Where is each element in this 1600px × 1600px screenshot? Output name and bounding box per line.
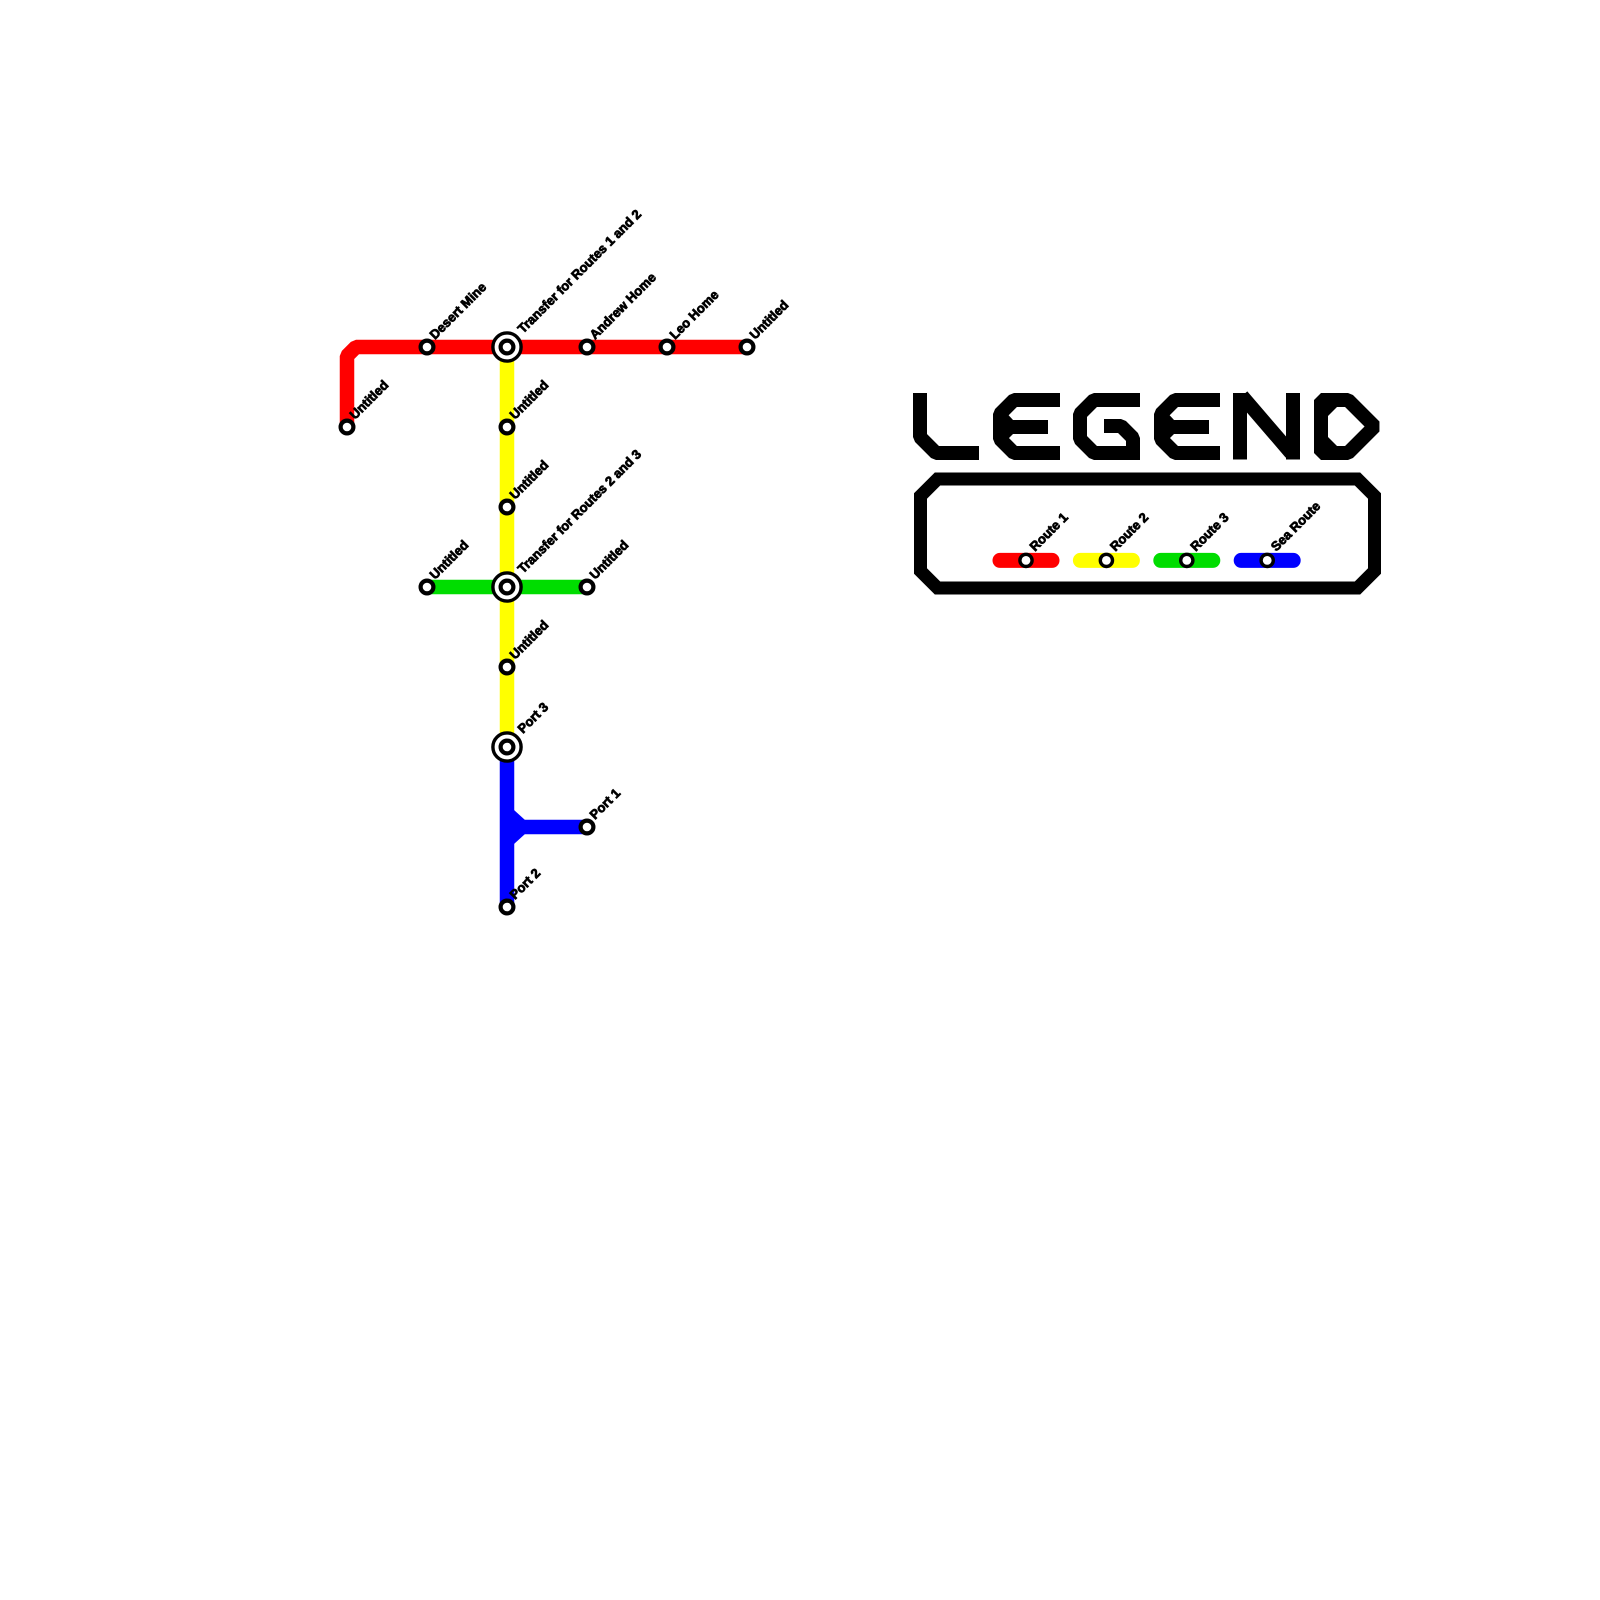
- station Untitled (green east terminus) marker: [581, 581, 594, 594]
- station Port 1 marker: [581, 821, 594, 834]
- route 1 red line: [347, 347, 747, 427]
- station Untitled (yellow 1) marker: [501, 421, 514, 434]
- station Untitled (yellow 2) marker: [501, 501, 514, 514]
- letter G: [1080, 400, 1140, 453]
- legend sample sea route blue line: [1241, 553, 1293, 568]
- station Andrew Home marker: [581, 341, 594, 354]
- letter E (second): [1161, 400, 1220, 453]
- legend route 2 station marker: [1100, 554, 1112, 566]
- station Desert Mine marker: [421, 341, 434, 354]
- letter D: [1321, 400, 1375, 453]
- station Untitled (red terminus) marker: [341, 421, 354, 434]
- station Untitled (red east terminus) marker: [741, 341, 754, 354]
- sea route blue branch to Port 1: [507, 820, 587, 835]
- route 2 yellow line: [500, 347, 515, 747]
- legend box frame: [921, 479, 1375, 588]
- legend route 3 station marker: [1181, 554, 1193, 566]
- letter N: [1233, 393, 1247, 460]
- legend sample route 1 red line: [1000, 553, 1052, 568]
- letter E (first): [1000, 400, 1060, 453]
- station Untitled (yellow 3) marker: [501, 661, 514, 674]
- legend sample route 2 yellow line: [1080, 553, 1132, 568]
- sea route blue line main: [500, 747, 515, 907]
- transfer station Transfer for Routes 1 and 2 marker: [493, 333, 521, 361]
- sea route branch junction flare: [514, 810, 525, 844]
- LEGEND title lettering: [920, 393, 1375, 460]
- legend route 1 station marker: [1020, 554, 1032, 566]
- station Leo Home marker: [661, 341, 674, 354]
- transfer station Transfer for Routes 2 and 3 marker: [493, 573, 521, 601]
- legend sea route station marker: [1261, 554, 1273, 566]
- station Port 2 marker: [501, 901, 514, 914]
- station Untitled (green west terminus) marker: [421, 581, 434, 594]
- letter L: [920, 393, 979, 453]
- transfer station Port 3 marker: [493, 733, 521, 761]
- route 3 green line: [427, 580, 587, 595]
- legend sample route 3 green line: [1161, 553, 1213, 568]
